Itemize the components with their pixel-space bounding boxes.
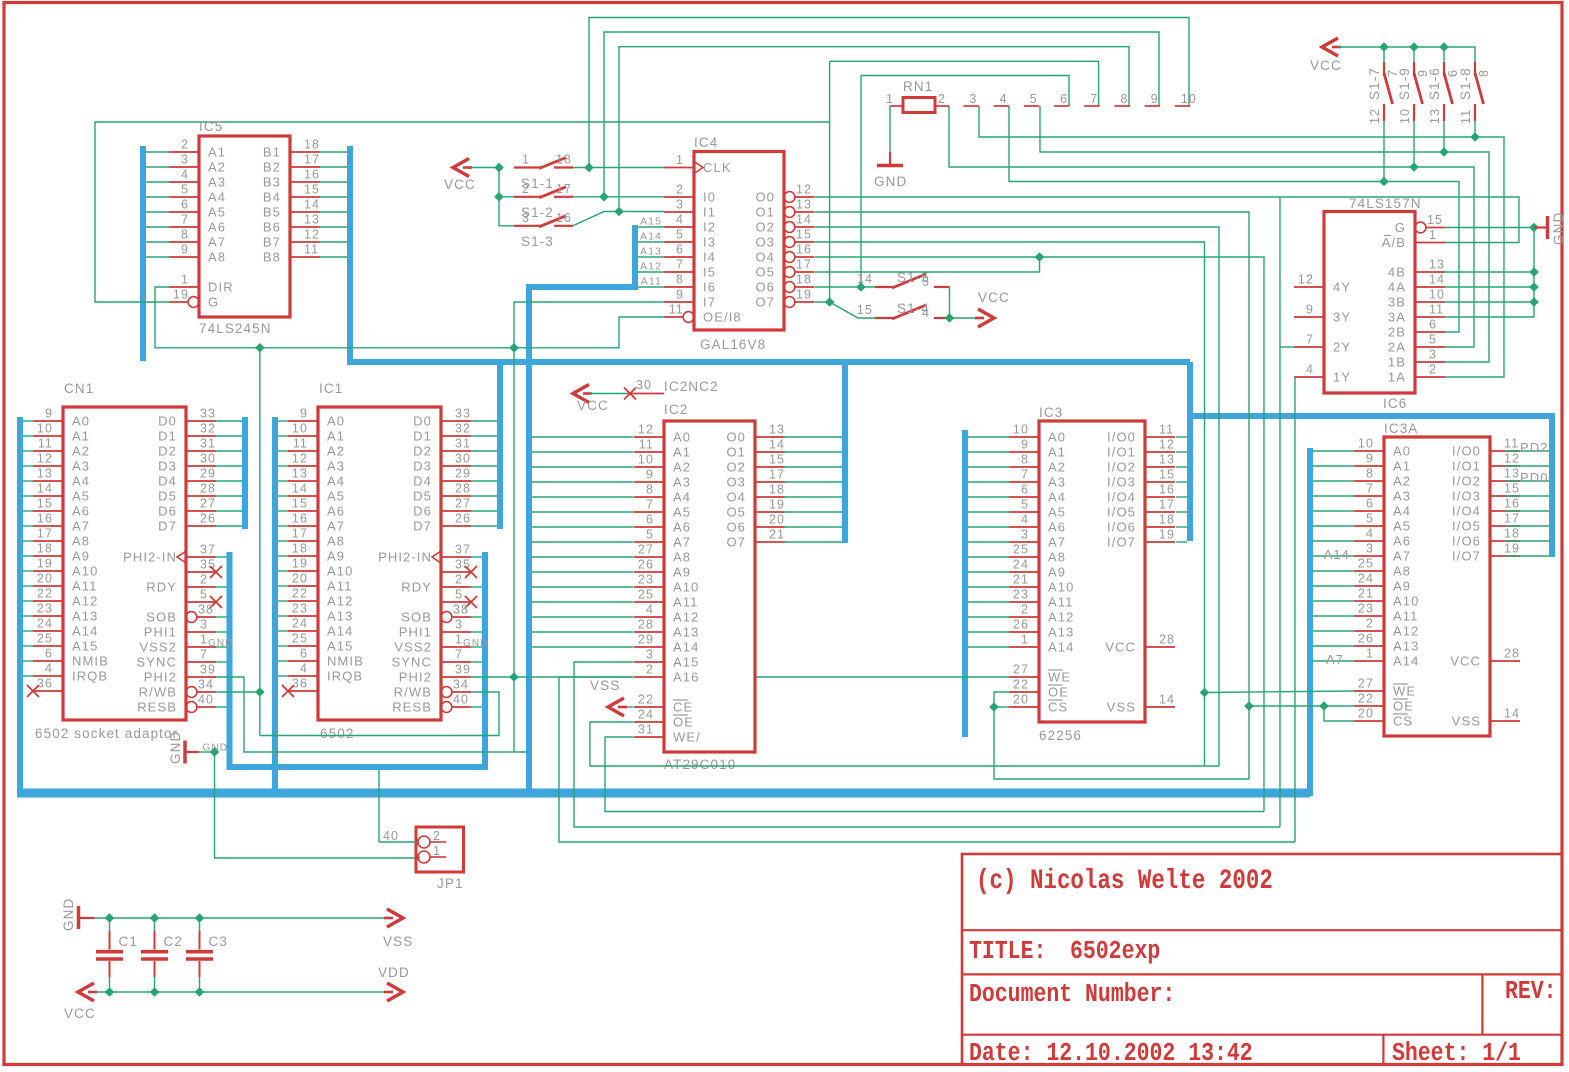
svg-text:I6: I6 <box>703 280 716 295</box>
power VCC arrow right of S1-4 <box>975 290 1010 327</box>
svg-text:5: 5 <box>200 588 208 602</box>
bus left of CN1 down to main trunk <box>17 417 23 793</box>
svg-text:3: 3 <box>969 92 977 106</box>
svg-text:A14: A14 <box>327 624 353 639</box>
wire CN1 R/WB to vertical <box>216 687 265 697</box>
svg-text:A10: A10 <box>673 580 699 595</box>
svg-text:16: 16 <box>1504 497 1520 511</box>
op IC2 AT29C010 flash <box>634 402 785 772</box>
svg-text:26: 26 <box>1358 632 1374 646</box>
svg-text:I/O2: I/O2 <box>1107 460 1136 475</box>
svg-text:O5: O5 <box>755 265 775 280</box>
svg-text:A3: A3 <box>208 175 226 190</box>
svg-text:1: 1 <box>1021 633 1029 647</box>
svg-text:19: 19 <box>173 288 189 302</box>
wire IC2 address taps from central bus <box>532 437 634 647</box>
wire S1-7 bottom <box>1383 121 1385 182</box>
svg-text:13: 13 <box>769 423 785 437</box>
svg-text:5: 5 <box>1366 512 1374 526</box>
svg-text:AT29C010: AT29C010 <box>664 757 736 772</box>
svg-text:VSS: VSS <box>1452 714 1481 729</box>
svg-text:2: 2 <box>522 182 530 196</box>
wire IC1 PHI2 to junction <box>471 676 1009 678</box>
svg-text:9: 9 <box>676 288 684 302</box>
svg-text:16: 16 <box>1159 483 1175 497</box>
svg-text:A5: A5 <box>208 205 226 220</box>
svg-text:29: 29 <box>638 633 654 647</box>
wire IC5 G net up and across to S1-4/RN1 vertical <box>95 122 830 302</box>
svg-text:18: 18 <box>292 542 308 556</box>
svg-text:5: 5 <box>1021 498 1029 512</box>
svg-text:17: 17 <box>769 468 785 482</box>
svg-text:24: 24 <box>292 617 308 631</box>
svg-text:A3: A3 <box>327 459 345 474</box>
svg-text:A7: A7 <box>208 235 226 250</box>
switch S1-2 <box>514 182 573 220</box>
wire S1-5 column vertical <box>860 76 862 288</box>
svg-text:25: 25 <box>1013 543 1029 557</box>
svg-text:7: 7 <box>455 648 463 662</box>
svg-text:7: 7 <box>646 498 654 512</box>
svg-text:RDY: RDY <box>146 580 177 595</box>
label net VSS and arrow at IC2 CE <box>590 678 634 716</box>
wire PHI2 vertical from IC4 I7 <box>509 302 664 752</box>
svg-text:D1: D1 <box>158 429 177 444</box>
svg-text:17: 17 <box>1159 498 1175 512</box>
svg-text:I/O7: I/O7 <box>1452 549 1481 564</box>
svg-text:2: 2 <box>200 573 208 587</box>
svg-text:A8: A8 <box>1048 550 1066 565</box>
svg-text:PHI2: PHI2 <box>399 670 432 685</box>
svg-text:O7: O7 <box>726 535 746 550</box>
svg-text:1Y: 1Y <box>1333 370 1351 385</box>
svg-text:D2: D2 <box>158 444 177 459</box>
svg-text:SYNC: SYNC <box>391 655 432 670</box>
svg-text:7: 7 <box>1021 468 1029 482</box>
op IC4 GAL16V8 PLD <box>664 135 814 352</box>
svg-text:REV:: REV: <box>1505 977 1557 1007</box>
svg-text:32: 32 <box>200 422 216 436</box>
title block TITLE row <box>969 937 1160 967</box>
svg-text:(c) Nicolas Welte 2002: (c) Nicolas Welte 2002 <box>976 865 1273 897</box>
svg-text:O4: O4 <box>726 490 746 505</box>
wire CN1 control pins to lower bus <box>216 557 227 707</box>
svg-text:A11: A11 <box>673 595 698 610</box>
svg-text:GND: GND <box>874 174 907 189</box>
capacitor C2 <box>141 918 183 992</box>
svg-text:4: 4 <box>1366 527 1374 541</box>
wire IC4 A11 bus tap <box>638 286 664 288</box>
svg-text:15: 15 <box>769 453 785 467</box>
svg-text:4: 4 <box>181 168 189 182</box>
svg-text:12: 12 <box>304 228 320 242</box>
svg-text:A4: A4 <box>208 190 226 205</box>
svg-text:21: 21 <box>1358 587 1374 601</box>
svg-text:5: 5 <box>1030 92 1038 106</box>
switch S1-6 <box>1427 62 1460 124</box>
svg-text:16: 16 <box>292 512 308 526</box>
svg-text:18: 18 <box>1159 513 1175 527</box>
wire IC5 DIR / IC4 OE-I8 / RWB net <box>155 287 664 353</box>
svg-text:17: 17 <box>1504 512 1520 526</box>
wire S1-2 to IC4 I0 <box>573 192 664 202</box>
svg-text:A0: A0 <box>72 414 90 429</box>
svg-text:A7: A7 <box>1393 549 1411 564</box>
svg-text:23: 23 <box>638 573 654 587</box>
svg-text:A7: A7 <box>1326 652 1344 667</box>
svg-text:28: 28 <box>1504 647 1520 661</box>
svg-text:D3: D3 <box>413 459 432 474</box>
connector JP1 jumper <box>383 827 464 891</box>
svg-text:CN1: CN1 <box>64 381 94 396</box>
svg-text:C3: C3 <box>209 934 228 949</box>
svg-text:B7: B7 <box>263 235 281 250</box>
svg-text:3: 3 <box>200 618 208 632</box>
svg-text:21: 21 <box>769 528 785 542</box>
svg-text:O7: O7 <box>755 295 775 310</box>
svg-text:12: 12 <box>1504 452 1520 466</box>
svg-text:18: 18 <box>304 138 320 152</box>
svg-text:D4: D4 <box>158 474 177 489</box>
svg-text:38: 38 <box>453 603 469 617</box>
svg-text:22: 22 <box>37 587 53 601</box>
bus left of IC3A down to main trunk <box>1307 448 1313 796</box>
svg-text:16: 16 <box>37 512 53 526</box>
svg-text:A2: A2 <box>72 444 90 459</box>
svg-text:A1: A1 <box>1393 459 1411 474</box>
bus U under CN1 and IC1 <box>230 552 486 767</box>
wire VCC to S1-1/2/3 commons <box>467 163 514 226</box>
svg-text:20: 20 <box>769 513 785 527</box>
switch S1-1 <box>514 153 573 192</box>
svg-text:10: 10 <box>1013 423 1029 437</box>
svg-text:O3: O3 <box>755 235 775 250</box>
pin IC2 NC pin 30 with VCC arrow <box>573 378 719 413</box>
svg-text:11: 11 <box>1159 423 1174 437</box>
svg-text:I/O1: I/O1 <box>1452 459 1481 474</box>
svg-text:19: 19 <box>1504 542 1520 556</box>
svg-text:5: 5 <box>646 528 654 542</box>
svg-text:B2: B2 <box>263 160 281 175</box>
svg-text:B4: B4 <box>263 190 281 205</box>
svg-text:A1: A1 <box>72 429 90 444</box>
svg-text:1: 1 <box>200 633 208 647</box>
svg-text:26: 26 <box>1013 618 1029 632</box>
svg-text:A2: A2 <box>208 160 226 175</box>
svg-text:VCC: VCC <box>64 1006 96 1021</box>
wire rail RN1 pin6 down to S1-5 column <box>861 76 1069 107</box>
svg-text:25: 25 <box>37 632 53 646</box>
svg-text:6: 6 <box>1060 92 1068 106</box>
svg-text:16: 16 <box>796 243 812 257</box>
svg-text:A8: A8 <box>72 534 90 549</box>
svg-text:A1: A1 <box>1048 445 1066 460</box>
svg-text:16: 16 <box>304 168 320 182</box>
switch S1-8 <box>1458 62 1491 124</box>
svg-text:1A: 1A <box>1388 370 1406 385</box>
wire RN1 pin3 to S1-8 and IC6 1A <box>979 106 1504 377</box>
svg-text:20: 20 <box>1013 693 1029 707</box>
svg-text:A3: A3 <box>673 475 691 490</box>
svg-text:9: 9 <box>1366 452 1374 466</box>
svg-text:2A: 2A <box>1388 340 1406 355</box>
svg-text:4Y: 4Y <box>1333 280 1351 295</box>
svg-text:13: 13 <box>1429 258 1445 272</box>
svg-text:40: 40 <box>383 829 399 843</box>
wire VCC rail <box>93 987 384 997</box>
svg-text:13: 13 <box>292 467 308 481</box>
svg-text:SOB: SOB <box>401 610 432 625</box>
svg-text:I5: I5 <box>703 265 716 280</box>
svg-text:6: 6 <box>45 647 53 661</box>
wire IC3 address taps <box>968 437 1009 647</box>
svg-text:I/O7: I/O7 <box>1107 535 1136 550</box>
wire IC4 A15 bus tap <box>638 226 664 228</box>
wire IC5 A-side bus taps <box>146 152 169 257</box>
wire IC3A WE from O3 line <box>1205 691 1355 693</box>
svg-text:A12: A12 <box>1048 610 1074 625</box>
svg-text:12: 12 <box>638 423 654 437</box>
svg-text:A11: A11 <box>72 579 97 594</box>
svg-text:11: 11 <box>1429 303 1444 317</box>
svg-text:17: 17 <box>796 258 812 272</box>
svg-text:4: 4 <box>45 662 53 676</box>
svg-text:24: 24 <box>638 708 654 722</box>
svg-text:Date: 12.10.2002 13:42: Date: 12.10.2002 13:42 <box>969 1039 1253 1069</box>
svg-text:28: 28 <box>638 618 654 632</box>
wire IC3A data to bus <box>1505 451 1549 556</box>
op IC3 62256 SRAM <box>1009 405 1175 743</box>
svg-text:2B: 2B <box>1388 325 1406 340</box>
svg-text:PHI2: PHI2 <box>144 670 177 685</box>
svg-text:19: 19 <box>292 557 308 571</box>
resistor RN1 network <box>886 79 1197 113</box>
svg-text:15: 15 <box>292 497 308 511</box>
svg-text:O0: O0 <box>726 430 746 445</box>
svg-text:A8: A8 <box>673 550 691 565</box>
svg-text:A4: A4 <box>1393 504 1411 519</box>
svg-text:3: 3 <box>522 211 530 225</box>
wire IC2 OE to O2 line <box>590 722 1219 766</box>
svg-text:1: 1 <box>433 844 441 858</box>
svg-text:A3: A3 <box>1393 489 1411 504</box>
svg-text:20: 20 <box>292 572 308 586</box>
svg-text:7: 7 <box>676 258 684 272</box>
svg-text:39: 39 <box>200 663 216 677</box>
svg-text:PD0: PD0 <box>1520 470 1549 485</box>
svg-text:4: 4 <box>922 306 930 320</box>
wire IC5 B-side bus taps <box>320 152 347 257</box>
svg-text:5: 5 <box>922 275 930 289</box>
svg-text:I/O1: I/O1 <box>1107 445 1136 460</box>
svg-text:GND: GND <box>61 898 76 931</box>
svg-text:3: 3 <box>676 198 684 212</box>
svg-text:I/O6: I/O6 <box>1452 534 1481 549</box>
wire IC2 outputs to bus <box>784 437 842 542</box>
title block document number row <box>969 977 1557 1010</box>
svg-text:A/B: A/B <box>1382 235 1406 250</box>
svg-text:A5: A5 <box>72 489 90 504</box>
svg-text:8: 8 <box>1120 92 1128 106</box>
svg-text:IC1: IC1 <box>319 381 343 396</box>
wire S1-5 S1-4 outputs to VCC <box>945 287 979 323</box>
svg-text:O5: O5 <box>726 505 746 520</box>
svg-text:VSS2: VSS2 <box>139 640 177 655</box>
svg-text:D6: D6 <box>158 504 177 519</box>
svg-text:WE/: WE/ <box>673 730 701 745</box>
svg-text:22: 22 <box>1013 678 1029 692</box>
svg-text:34: 34 <box>453 678 469 692</box>
wire VSS rail <box>95 913 385 923</box>
svg-text:IC4: IC4 <box>694 135 718 150</box>
svg-text:DIR: DIR <box>208 280 234 295</box>
label net A12 <box>640 261 662 273</box>
switch S1-4 <box>857 301 949 320</box>
wire IC6 2Y to O0 column <box>1280 346 1294 348</box>
svg-text:3: 3 <box>455 618 463 632</box>
svg-text:30: 30 <box>200 452 216 466</box>
wire S1-9 bottom <box>1413 121 1415 167</box>
svg-text:A3: A3 <box>1048 475 1066 490</box>
wire JP1 pin2 to bus <box>379 770 418 842</box>
svg-text:7: 7 <box>1366 482 1374 496</box>
bus left of IC5 <box>140 146 146 361</box>
svg-text:9: 9 <box>1021 438 1029 452</box>
power VCC arrow bottom left <box>64 983 97 1021</box>
svg-text:22: 22 <box>1358 692 1374 706</box>
svg-text:15: 15 <box>1427 213 1443 227</box>
svg-text:A0: A0 <box>1048 430 1066 445</box>
svg-text:A15: A15 <box>327 639 353 654</box>
svg-text:14: 14 <box>796 213 812 227</box>
label net A7 on IC3A pin1 wire <box>1326 652 1344 667</box>
svg-text:A15: A15 <box>72 639 98 654</box>
svg-text:A10: A10 <box>72 564 98 579</box>
svg-text:25: 25 <box>292 632 308 646</box>
svg-text:D0: D0 <box>158 414 177 429</box>
svg-text:17: 17 <box>292 527 308 541</box>
svg-text:IC2NC2: IC2NC2 <box>664 379 719 394</box>
svg-text:10: 10 <box>1358 437 1374 451</box>
svg-text:5: 5 <box>181 183 189 197</box>
svg-text:D1: D1 <box>413 429 432 444</box>
bus left of IC3 <box>962 430 968 737</box>
svg-text:30: 30 <box>455 452 471 466</box>
svg-text:A13: A13 <box>673 625 699 640</box>
svg-text:A9: A9 <box>1048 565 1066 580</box>
svg-text:10: 10 <box>292 422 308 436</box>
svg-text:7: 7 <box>1090 92 1098 106</box>
svg-text:6502 socket adaptor: 6502 socket adaptor <box>35 726 178 741</box>
svg-text:36: 36 <box>37 677 53 691</box>
bus from IC4 inputs down to main trunk <box>529 225 635 790</box>
wire GND node to JP1 pin1 <box>210 747 420 858</box>
svg-text:D5: D5 <box>413 489 432 504</box>
svg-text:PHI1: PHI1 <box>399 625 432 640</box>
svg-text:A14: A14 <box>673 640 699 655</box>
svg-text:12: 12 <box>292 452 308 466</box>
svg-text:I2: I2 <box>703 220 716 235</box>
svg-text:26: 26 <box>200 512 216 526</box>
svg-text:2: 2 <box>938 92 946 106</box>
svg-text:A7: A7 <box>673 535 691 550</box>
svg-text:11: 11 <box>1504 437 1519 451</box>
wire S1-8 bottom <box>1474 121 1476 137</box>
svg-text:3: 3 <box>1021 528 1029 542</box>
svg-text:PHI2-IN: PHI2-IN <box>378 550 432 565</box>
svg-text:10: 10 <box>638 453 654 467</box>
capacitor C1 <box>96 918 138 992</box>
svg-text:A14: A14 <box>1324 547 1350 562</box>
svg-text:9: 9 <box>1306 303 1314 317</box>
svg-text:10: 10 <box>1429 288 1445 302</box>
svg-text:A4: A4 <box>673 490 691 505</box>
svg-text:R/WB: R/WB <box>139 685 177 700</box>
label net A13 <box>640 246 662 258</box>
svg-text:4: 4 <box>646 603 654 617</box>
svg-text:I/O6: I/O6 <box>1107 520 1136 535</box>
svg-text:A6: A6 <box>327 504 345 519</box>
wire IC6 G to GND <box>1444 223 1539 233</box>
svg-text:21: 21 <box>1013 573 1029 587</box>
ground symbol right of IC6 <box>1534 212 1566 245</box>
label net A15 <box>640 216 662 228</box>
wire IC4 O6 to S1-5 <box>814 282 875 292</box>
svg-text:C2: C2 <box>164 934 183 949</box>
svg-text:PHI1: PHI1 <box>144 625 177 640</box>
svg-text:A9: A9 <box>673 565 691 580</box>
svg-text:6502: 6502 <box>320 726 354 741</box>
svg-text:4: 4 <box>1021 513 1029 527</box>
svg-text:A5: A5 <box>327 489 345 504</box>
svg-text:3: 3 <box>1366 542 1374 556</box>
svg-text:VSS: VSS <box>383 934 413 949</box>
svg-text:5: 5 <box>455 588 463 602</box>
title block copyright text <box>976 865 1273 897</box>
svg-text:A5: A5 <box>1048 505 1066 520</box>
switch S1-3 <box>514 211 573 249</box>
svg-text:15: 15 <box>304 183 320 197</box>
svg-text:6: 6 <box>676 243 684 257</box>
svg-text:1: 1 <box>676 153 684 167</box>
switch S1-9 <box>1397 62 1430 124</box>
svg-text:2: 2 <box>1366 617 1374 631</box>
wire IC6 4B/4A/3B/3A tie to GND column <box>1444 228 1539 318</box>
wire net O3 down to IC3A WE line <box>814 242 1209 766</box>
svg-text:A9: A9 <box>72 549 90 564</box>
svg-text:A4: A4 <box>327 474 345 489</box>
svg-text:40: 40 <box>198 693 214 707</box>
svg-text:26: 26 <box>638 558 654 572</box>
wire IC3A OE/CS join <box>1249 701 1354 721</box>
svg-text:D7: D7 <box>158 519 177 534</box>
svg-text:I7: I7 <box>703 295 716 310</box>
svg-text:B6: B6 <box>263 220 281 235</box>
wire IC4 O7 to S1-4 via diagonal <box>814 297 875 318</box>
svg-text:S1-6: S1-6 <box>1427 67 1442 100</box>
op IC3A SRAM socket <box>1354 421 1520 736</box>
svg-text:1: 1 <box>455 633 463 647</box>
svg-text:I/O4: I/O4 <box>1452 504 1481 519</box>
svg-text:5: 5 <box>676 228 684 242</box>
svg-text:9: 9 <box>181 243 189 257</box>
svg-text:A14: A14 <box>72 624 98 639</box>
svg-text:VCC: VCC <box>1105 640 1136 655</box>
svg-text:A11: A11 <box>1393 609 1418 624</box>
svg-text:RESB: RESB <box>137 700 177 715</box>
svg-text:O2: O2 <box>755 220 775 235</box>
svg-text:27: 27 <box>200 497 216 511</box>
